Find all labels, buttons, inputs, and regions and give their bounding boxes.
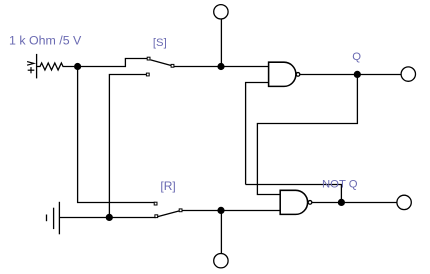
NAND gate U2 output bubble <box>308 201 312 205</box>
terminal NOT Q output pin <box>397 195 411 209</box>
wire U1 input B feedback <box>246 83 269 185</box>
NAND gate U1 output bubble <box>296 73 300 77</box>
wire NOT Q feedback run <box>246 185 342 203</box>
terminal T2 (bottom input pin) <box>214 254 228 268</box>
wire node A down left side to switch R upper throw <box>78 67 156 203</box>
node R junction dot <box>217 207 224 214</box>
node Q junction dot <box>354 71 361 78</box>
wire Q feedback to U2 input A <box>257 75 357 195</box>
wire ground to switch R <box>60 217 156 219</box>
wire node NOT Q to output terminal <box>341 202 397 204</box>
svg-text:[R]: [R] <box>160 179 175 193</box>
wire stem to bottom terminal <box>220 211 222 254</box>
NAND gate U1 body <box>269 62 296 86</box>
wire U1 output to node Q <box>300 74 357 76</box>
node NOT Q junction dot <box>338 199 345 206</box>
wire stem to top terminal <box>220 19 222 66</box>
svg-text:NOT Q: NOT Q <box>322 178 358 190</box>
switch R (push switch) <box>155 209 182 218</box>
NAND gate U2 body <box>280 190 307 214</box>
wire node A to switch S step <box>78 59 148 67</box>
label +V (rotated, drawn as strokes) <box>27 62 34 74</box>
wire switch R output to gate U2 input B <box>182 210 280 212</box>
switch R upper throw contact square <box>154 202 157 205</box>
power supply +V terminal bar <box>36 54 38 79</box>
wire node Q to output terminal <box>357 74 401 76</box>
node B junction dot (ground rail) <box>106 214 113 221</box>
wire switch S output to gate U1 input A <box>174 66 269 68</box>
resistor R1 1 kOhm <box>37 63 75 70</box>
node S junction dot <box>217 63 224 70</box>
wire U2 output to node NOT Q <box>312 202 341 204</box>
switch S second throw contact square <box>146 73 149 76</box>
switch S second throw wire <box>109 75 146 218</box>
node A junction dot (resistor output) <box>74 63 81 70</box>
svg-text:[S]: [S] <box>153 37 167 49</box>
svg-text:Q: Q <box>352 51 361 63</box>
ground 0V terminal (battery bars) <box>47 202 60 235</box>
terminal T1 (top input pin) <box>214 5 228 19</box>
switch S (push switch, open) <box>147 57 174 67</box>
svg-text:1 k Ohm /5 V: 1 k Ohm /5 V <box>9 33 82 47</box>
terminal Q output pin <box>401 67 415 81</box>
